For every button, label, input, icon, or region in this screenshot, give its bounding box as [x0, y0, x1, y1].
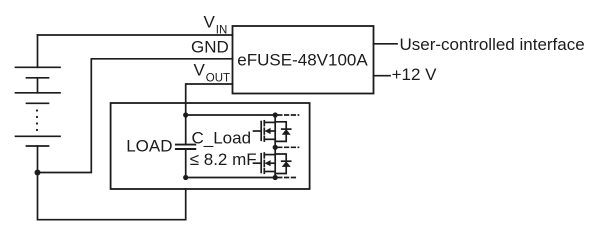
svg-text:V: V [194, 61, 206, 80]
wire: load return to battery negative [38, 173, 186, 220]
label VIN [204, 13, 228, 37]
transistor Q2 [254, 147, 276, 177]
svg-text:V: V [204, 13, 216, 32]
pin stub: user-controlled interface [374, 43, 398, 45]
wire: top rail to FETs [186, 114, 299, 116]
wire VOUT: eFuse VOUT pin down into load [186, 84, 233, 145]
svg-text:LOAD: LOAD [126, 137, 172, 156]
svg-text:+12 V: +12 V [392, 65, 438, 84]
svg-text:User-controlled interface: User-controlled interface [400, 35, 585, 54]
eFuse U1 [233, 26, 374, 94]
load box [111, 103, 310, 189]
svg-text:OUT: OUT [206, 72, 230, 84]
node: battery negative junction [35, 170, 41, 176]
svg-text:C_Load: C_Load [192, 129, 252, 148]
capacitor C1 C_Load [176, 145, 195, 178]
node: middle rail junction [273, 145, 278, 150]
wire: middle rail dashed continuation [278, 146, 299, 148]
label VOUT [194, 61, 231, 85]
node: VOUT top junction [183, 112, 188, 117]
svg-text:≤ 8.2 mF: ≤ 8.2 mF [190, 150, 257, 169]
node: bottom rail right junction [273, 175, 278, 180]
svg-text:GND: GND [191, 38, 229, 57]
wire: bottom rail [186, 177, 296, 179]
battery BT1 [16, 35, 61, 173]
transistor Q1 [254, 115, 276, 147]
pin stub: +12 V [374, 75, 391, 77]
svg-text:IN: IN [216, 25, 228, 37]
node: top rail junction [273, 112, 278, 117]
svg-text:eFUSE-48V100A: eFUSE-48V100A [237, 50, 368, 69]
wire VIN: battery + to eFuse VIN pin [38, 34, 233, 36]
wire GND: eFuse GND pin to battery negative [38, 59, 233, 173]
diode D2 (body diode of Q2) [275, 154, 291, 174]
node: bottom rail left junction [183, 175, 188, 180]
diode D1 (body diode of Q1) [275, 122, 291, 142]
